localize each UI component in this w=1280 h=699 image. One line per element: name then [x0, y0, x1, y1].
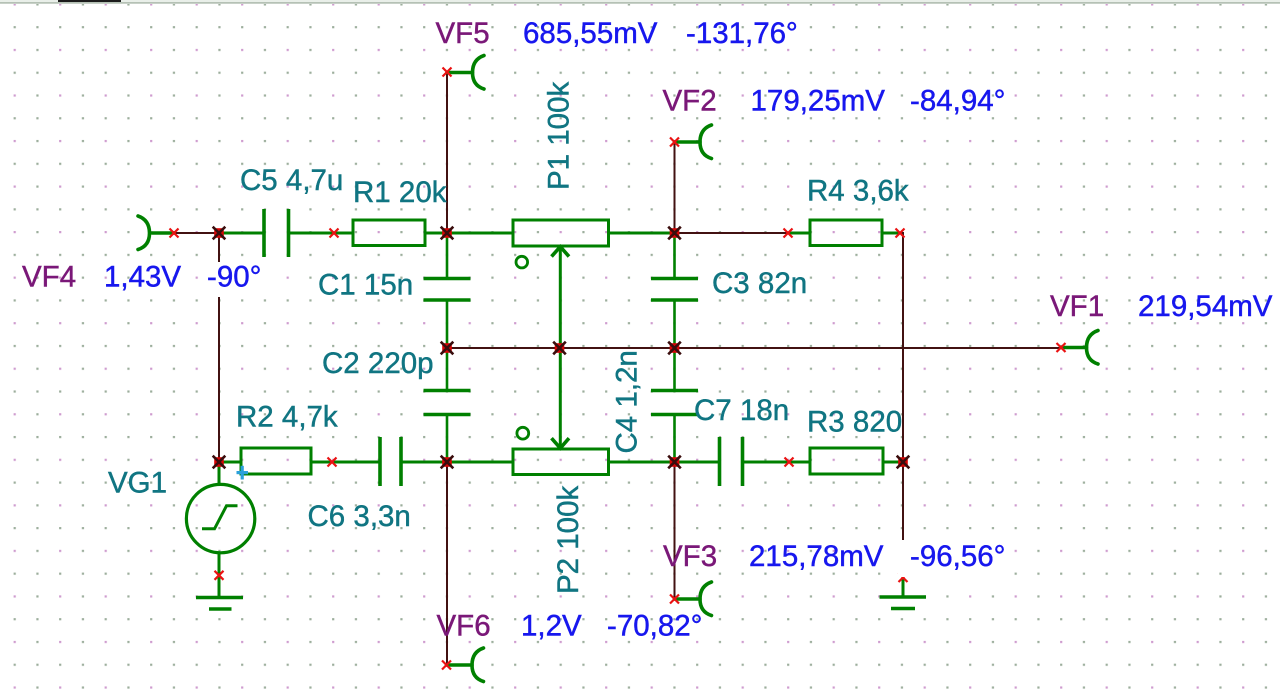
- svg-text:VF2: VF2: [663, 85, 717, 118]
- svg-text:P2 100k: P2 100k: [552, 486, 585, 594]
- svg-text:C1 15n: C1 15n: [318, 269, 413, 302]
- VG1 bottom lead: [218, 552, 221, 576]
- probe VF5: [447, 56, 484, 90]
- svg-text:R1 20k: R1 20k: [353, 176, 447, 209]
- wire R2 to C6: [311, 461, 379, 464]
- probe VF3: [675, 582, 712, 616]
- junction node A (VF4/VG1 branch, top wire): [213, 227, 226, 240]
- svg-text:C7 18n: C7 18n: [694, 394, 789, 427]
- junction node G (R2/VG1, bottom wire): [213, 456, 226, 469]
- wire C7 to R3: [744, 461, 811, 464]
- capacitor C4 plates: [651, 391, 698, 415]
- junction node B (R1/P1/C1/VF5, top wire): [441, 227, 454, 240]
- capacitor C3 plates: [651, 279, 698, 301]
- wire C5 to R1: [290, 232, 353, 235]
- svg-text:-84,94°: -84,94°: [910, 85, 1005, 118]
- pin-connect X at VF4 probe: [170, 229, 179, 238]
- pin-connect X at VF2 probe: [670, 138, 679, 147]
- svg-text:179,25mV: 179,25mV: [751, 85, 886, 118]
- probe VF6: [447, 648, 484, 682]
- pin-connect X at VF6 probe: [442, 661, 451, 670]
- wire R4 left lead: [789, 232, 810, 235]
- resistor R2: [241, 448, 311, 474]
- white label box behind -90 deg (hides left wire): [202, 262, 272, 297]
- resistor R3: [810, 448, 883, 474]
- probe VF2: [675, 125, 712, 159]
- wire middle horizontal to VF1: [447, 347, 1061, 349]
- svg-text:VF3: VF3: [663, 540, 717, 573]
- wire node G to R2: [219, 461, 241, 464]
- wire VF4 x to node A: [175, 232, 219, 234]
- svg-text:C6 3,3n: C6 3,3n: [308, 500, 411, 533]
- wire VF2 down to node C: [674, 142, 676, 233]
- capacitor C6 plates: [380, 437, 401, 486]
- svg-text:1,2V: 1,2V: [521, 610, 582, 643]
- ground (right): [880, 578, 927, 609]
- P2 wiper arrowhead: [552, 438, 570, 448]
- capacitor stems: [447, 233, 675, 462]
- capacitor C2 stems: [446, 348, 449, 389]
- svg-text:VF4: VF4: [22, 261, 76, 294]
- capacitor C1 plates: [424, 279, 471, 301]
- pin-connect X at C6 left lead: [328, 458, 337, 467]
- svg-text:-96,56°: -96,56°: [910, 540, 1005, 573]
- probe VF4 (mirrored): [138, 216, 174, 250]
- generator VG1 circle: [186, 484, 254, 552]
- wire R4 right corner down to right ground: [900, 233, 903, 577]
- wire node A down to node G (left vertical): [218, 233, 220, 462]
- probe VF1: [1061, 331, 1098, 365]
- pin-connect X at VF3 probe: [670, 595, 679, 604]
- pin-connect X at C5 right lead: [330, 229, 339, 238]
- wire node A to C5: [219, 232, 263, 235]
- junction node J (R3/ground branch, bottom wire): [897, 456, 910, 469]
- capacitor C7 plates: [720, 437, 743, 486]
- P1 terminal circle: [516, 256, 528, 268]
- wire C6 to node H: [402, 461, 447, 464]
- ground (left, under VG1): [196, 576, 243, 610]
- pin-connect X at R4 left lead: [784, 229, 793, 238]
- svg-text:VG1: VG1: [108, 467, 167, 500]
- svg-text:C5 4,7u: C5 4,7u: [240, 164, 343, 197]
- junction node F (C3/C4 mid wire): [668, 342, 681, 355]
- svg-text:VF5: VF5: [436, 17, 490, 50]
- wire P2 to node I: [608, 461, 675, 464]
- pin-connect X at right ground: [899, 573, 908, 582]
- junction node C (P1/R4/C3/VF2, top wire): [668, 227, 681, 240]
- top edge artifact band: [0, 0, 1280, 2]
- VG1 plus sign: [237, 466, 249, 480]
- wire node I to C7: [675, 461, 719, 464]
- wire node B to P1: [447, 232, 513, 235]
- junction node D (C1/C2 mid wire): [441, 342, 454, 355]
- junction node H (C6/P2/VF6, bottom wire): [441, 456, 454, 469]
- top edge dark bar: [58, 0, 121, 2]
- capacitor C2 plates: [424, 391, 471, 415]
- capacitor C4 stems: [673, 348, 676, 389]
- white label box behind -96,56 deg (hides right wire): [898, 540, 1012, 577]
- svg-text:215,78mV: 215,78mV: [749, 540, 884, 573]
- capacitor C5 plates: [264, 209, 289, 257]
- pin-connect X at C7 right lead: [785, 458, 794, 467]
- capacitor C1 stems: [446, 233, 449, 277]
- potentiometer P2 body: [513, 449, 609, 475]
- svg-text:-70,82°: -70,82°: [607, 610, 702, 643]
- svg-text:VF1: VF1: [1050, 290, 1104, 323]
- wire R3 to node J: [883, 461, 903, 464]
- P1 wiper arrowhead: [552, 247, 570, 257]
- resistor R4: [810, 220, 882, 246]
- pin-connect X at VF1 probe: [1057, 343, 1066, 352]
- svg-text:R4 3,6k: R4 3,6k: [807, 175, 909, 208]
- wire node H down to VF6: [446, 462, 448, 665]
- svg-text:P1 100k: P1 100k: [543, 82, 576, 190]
- wire VF5 down to node B: [446, 72, 448, 233]
- wire node I down to VF3: [674, 462, 676, 599]
- svg-text:-131,76°: -131,76°: [686, 17, 798, 50]
- wire R1 to node B: [425, 232, 447, 235]
- potentiometer P1 body: [513, 220, 609, 246]
- wire node C to R4 left: [675, 232, 789, 234]
- pin-connect X at VF5 probe: [443, 68, 452, 77]
- wire R4 right lead: [882, 232, 900, 235]
- pin-connect X at VG1 ground: [215, 571, 224, 580]
- junction node I (P2/C7/VF3, bottom wire): [668, 456, 681, 469]
- resistor R1: [353, 220, 425, 246]
- svg-text:C3 82n: C3 82n: [712, 267, 807, 300]
- VG1 top lead: [218, 462, 221, 486]
- svg-text:VF6: VF6: [437, 610, 491, 643]
- svg-text:219,54mV: 219,54mV: [1138, 290, 1273, 323]
- wiper shaft P1-P2: [559, 247, 562, 449]
- svg-text:R2 4,7k: R2 4,7k: [236, 401, 338, 434]
- wire node H to P2: [447, 461, 513, 464]
- svg-text:1,43V: 1,43V: [104, 261, 181, 294]
- junction node E (wiper shaft mid wire): [553, 342, 566, 355]
- VG1 waveform symbol: [202, 506, 238, 529]
- svg-text:C2 220p: C2 220p: [322, 347, 434, 380]
- svg-text:-90°: -90°: [207, 261, 261, 294]
- wire P1 to node C: [608, 232, 675, 235]
- svg-text:685,55mV: 685,55mV: [523, 17, 658, 50]
- svg-text:C4 1,2n: C4 1,2n: [611, 350, 644, 453]
- svg-text:R3 820: R3 820: [807, 406, 902, 439]
- pin-connect X at R4 right lead: [896, 229, 905, 238]
- P2 terminal circle: [517, 427, 529, 439]
- capacitor C3 stems: [673, 233, 676, 277]
